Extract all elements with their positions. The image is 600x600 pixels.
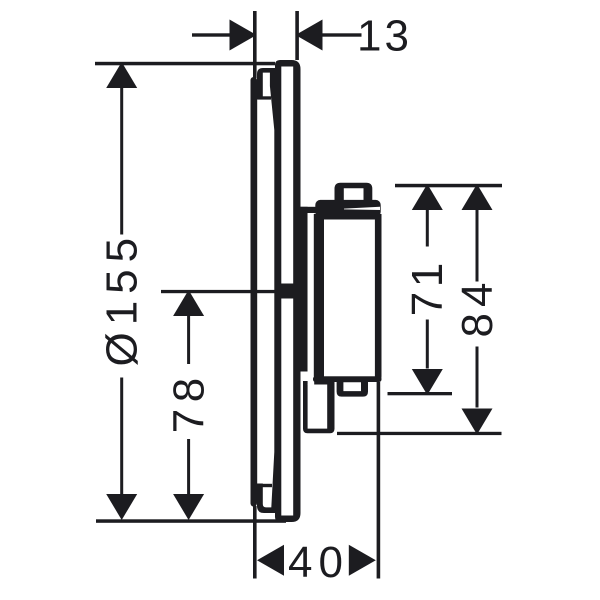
dim 78 bottom arrow [173,494,204,520]
svg-text:13: 13 [357,12,412,61]
sleeve lower ledge [257,484,272,487]
svg-text:Ø155: Ø155 [98,231,147,367]
top reference line (plate top) [95,62,275,66]
dim 84 upper stem [476,209,479,282]
dim 78 top arrow [173,290,204,316]
dim 13 tail right [322,33,362,36]
dim 84 top arrow [462,184,493,210]
handle body [314,214,382,382]
dim 71 upper stem [426,209,429,247]
dim 71 lower stem [426,320,429,369]
extension line wall (bottom) [253,506,257,579]
svg-text:71: 71 [403,258,452,316]
neck column [300,207,307,372]
dim 84 lower stem [476,347,479,408]
sleeve upper ledge [257,96,271,99]
bottom reference line (plate bottom) [96,519,286,523]
dim 71 top arrow [412,184,443,210]
handle stem band [280,284,294,299]
dim O155 bottom arrow [106,494,137,520]
right top reference line [395,184,502,188]
dim 40 arrow right-pointing [349,545,376,576]
extension line wall (top) [253,11,257,78]
71 bottom reference line [388,392,453,395]
sleeve left wall erase [257,100,264,484]
dim O155 upper stem [120,87,123,235]
dim 71 bottom arrow [412,369,443,395]
dim O155 lower stem [120,378,123,495]
extension line handle face [377,382,381,579]
dim 13 arrow left-pointing [296,20,323,51]
svg-text:40: 40 [288,538,349,587]
neck gap stripe [308,213,315,385]
handle bottom tab [337,382,368,397]
neck bridge [300,207,316,213]
84 bottom reference line [337,432,502,435]
dim 13 tail left [192,33,230,36]
dim 78 lower stem [187,439,190,495]
sleeve outline [257,68,276,513]
handle bottom rim [313,376,382,382]
dim 84 bottom arrow [462,409,493,435]
dim 13 arrow right-pointing [230,20,257,51]
sleeve slanted inner wall [270,73,276,508]
extension line plate face [295,11,299,60]
dim O155 top arrow [106,62,137,88]
handle cap [315,200,380,217]
handle cap white slit [344,207,380,210]
front plate outline [275,60,301,522]
svg-text:78: 78 [165,371,214,433]
dim 40 arrow left-pointing [257,545,284,576]
handle top tab [335,183,373,206]
dim 78 upper stem [187,315,190,364]
wall flange bar [251,77,258,507]
cartridge housing [303,381,335,433]
svg-text:84: 84 [453,277,502,338]
78 top reference line (handle axis) [161,290,277,293]
